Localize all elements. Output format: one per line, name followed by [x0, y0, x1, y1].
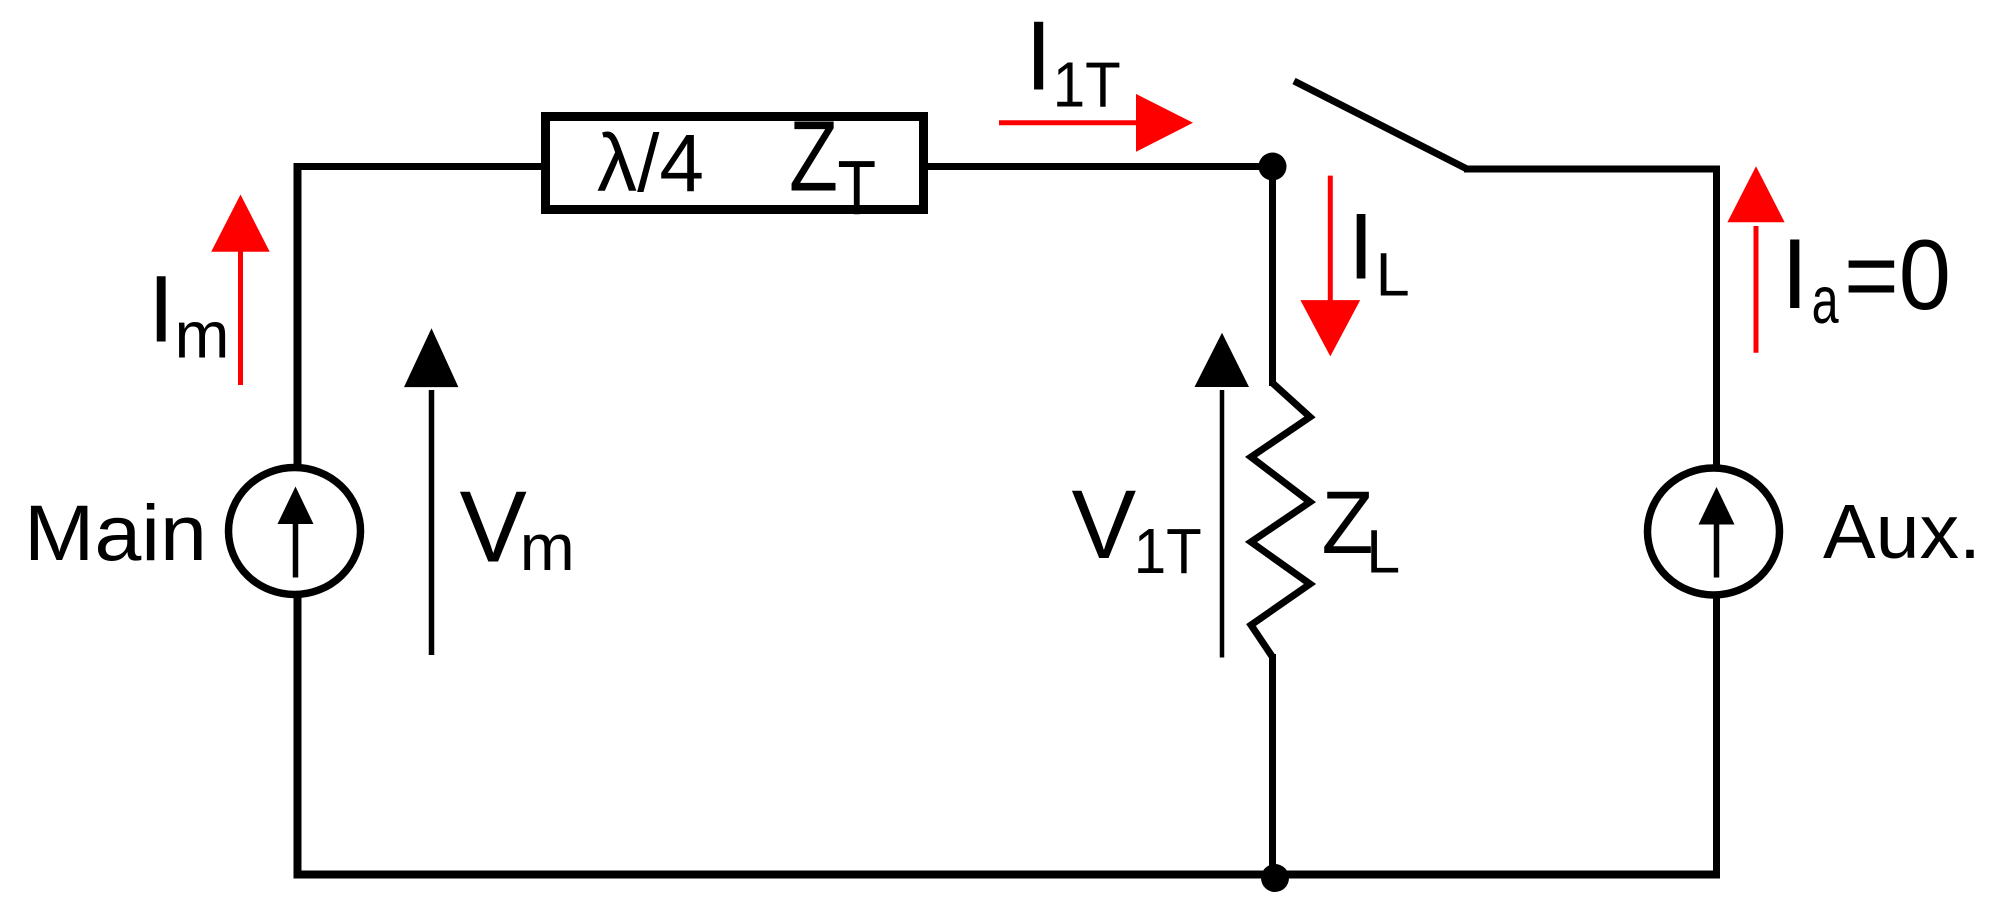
wire middle vertical upper — [1269, 163, 1276, 386]
svg-text:V: V — [1072, 470, 1137, 579]
svg-text:I: I — [148, 257, 174, 363]
arrow V1T (black, up) — [1220, 390, 1225, 658]
wire left vertical lower — [294, 595, 302, 878]
node A (top junction) — [1259, 153, 1287, 181]
arrow Ia (red, up) — [1754, 226, 1759, 353]
svg-text:1T: 1T — [1053, 49, 1121, 121]
svg-text:Main: Main — [24, 488, 207, 577]
svg-text:λ/4: λ/4 — [597, 118, 704, 209]
svg-text:L: L — [1366, 517, 1400, 585]
svg-text:L: L — [1376, 240, 1410, 308]
transmission line box lambda/4 ZT — [546, 117, 924, 210]
arrow I1T (red, right) — [999, 120, 1140, 125]
wire box to node horizontal — [922, 163, 1276, 170]
arrow Im (red, up) — [238, 248, 243, 385]
svg-text:V: V — [460, 471, 527, 583]
resistor ZL zigzag — [1251, 383, 1310, 657]
svg-text:a: a — [1812, 263, 1840, 338]
wire right vertical upper — [1713, 166, 1720, 469]
switch SW1 open arm — [1294, 81, 1467, 169]
wire right vertical lower — [1713, 595, 1720, 879]
wire middle vertical lower — [1269, 654, 1276, 877]
svg-text:I: I — [1348, 194, 1374, 299]
svg-text:m: m — [175, 298, 230, 372]
svg-text:I: I — [1025, 1, 1052, 111]
svg-text:=0: =0 — [1844, 219, 1951, 330]
arrow Vm (black, up) — [429, 390, 435, 655]
svg-text:1T: 1T — [1134, 515, 1202, 587]
svg-text:Aux.: Aux. — [1823, 489, 1981, 575]
wire left vertical upper — [294, 163, 302, 468]
current source Aux — [1648, 468, 1780, 595]
current source Main — [229, 468, 361, 595]
svg-text:I: I — [1781, 218, 1809, 329]
wire top-left horizontal — [294, 163, 548, 170]
svg-text:Z: Z — [789, 101, 838, 213]
arrow IL (red, down) — [1328, 176, 1333, 302]
wire switch to right corner — [1464, 166, 1717, 173]
svg-text:T: T — [838, 144, 877, 230]
node B (bottom junction) — [1261, 864, 1289, 892]
wire bottom horizontal — [294, 871, 1717, 879]
svg-text:m: m — [520, 510, 575, 584]
